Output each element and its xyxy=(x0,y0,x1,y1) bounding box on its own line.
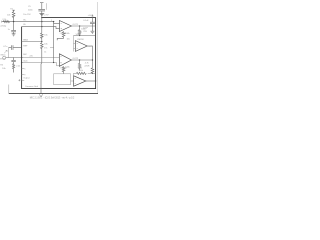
IC box outline U1 xyxy=(22,18,96,89)
node: input terminal xyxy=(0,21,2,23)
node junction output2 xyxy=(79,59,80,60)
wire: +9V arrow lead xyxy=(46,3,48,10)
resistor R10 horizontal y73 xyxy=(77,72,87,74)
node junction x53.6 y62.5 xyxy=(53,62,54,63)
node junction y62.5 xyxy=(21,62,22,63)
ground below C5 xyxy=(39,13,44,15)
op-amp U1D input marks xyxy=(75,78,76,83)
node junction xyxy=(41,21,42,22)
wire: U1B output xyxy=(71,59,92,61)
ground below C3 xyxy=(91,31,95,33)
wire: U1C output xyxy=(87,46,92,68)
wire: input signal y21.6 xyxy=(2,21,54,23)
svg-text:10k: 10k xyxy=(7,14,11,16)
op-amp U1C input marks xyxy=(77,43,78,48)
wire below C5 xyxy=(41,11,43,33)
battery plus mark xyxy=(18,79,20,81)
svg-text:C5: C5 xyxy=(28,6,32,8)
svg-text:2.7V: 2.7V xyxy=(44,15,49,17)
svg-text:1k: 1k xyxy=(44,51,46,53)
pin stub y68.6 xyxy=(22,68,25,70)
op-amp U1C xyxy=(75,41,87,52)
resistor R2 horizontal input xyxy=(3,21,9,23)
svg-text:Common Gnd: Common Gnd xyxy=(25,86,39,88)
node junction xyxy=(53,21,54,22)
op-amp U1B xyxy=(59,54,71,67)
pin stub y74.6 xyxy=(22,74,25,76)
wire: U1D vertical x73.6 xyxy=(73,73,75,78)
wire: mid-left vertical x73.5 xyxy=(73,36,75,52)
wire: second input y26.6 xyxy=(22,27,60,29)
svg-text:1%: 1% xyxy=(44,47,47,49)
capacitor C3 right column xyxy=(90,18,95,31)
svg-text:BIAS: BIAS xyxy=(23,39,28,42)
svg-text:100k: 100k xyxy=(79,70,84,72)
svg-text:100k: 100k xyxy=(65,33,70,35)
node junction x92.5 y73 xyxy=(92,73,93,74)
svg-text:IN-: IN- xyxy=(23,24,26,26)
svg-text:0.1uF: 0.1uF xyxy=(83,20,89,22)
svg-text:OUT2: OUT2 xyxy=(73,58,79,60)
resistor R11 vertical x92.5 xyxy=(91,68,94,74)
svg-text:IN+: IN+ xyxy=(23,19,27,21)
wire: supply vertical x41.8 xyxy=(41,3,43,10)
svg-text:REF: REF xyxy=(23,45,28,47)
resistor R8 vertical x63.6 under U1B xyxy=(62,66,65,74)
svg-text:R5: R5 xyxy=(0,65,4,67)
svg-text:10k: 10k xyxy=(44,43,48,45)
ground for C1 xyxy=(12,34,16,36)
svg-text:100n: 100n xyxy=(28,9,33,11)
wire: bottom-left frame vertical xyxy=(8,85,10,94)
node junction x41.8 y17.6 xyxy=(41,17,42,18)
svg-text:4.7k: 4.7k xyxy=(85,62,90,64)
svg-text:LM358: LM358 xyxy=(77,39,84,41)
svg-text:220R: 220R xyxy=(84,66,89,68)
wire: U1A output xyxy=(71,25,95,27)
node junction bias tap xyxy=(41,41,42,42)
svg-text:5: 5 xyxy=(24,69,25,71)
svg-text:+5V: +5V xyxy=(88,15,92,17)
wire: inverting path y62.5 xyxy=(22,63,60,66)
wire: U1D output xyxy=(86,80,96,82)
op-amp U1D xyxy=(74,76,86,86)
svg-text:Output: Output xyxy=(23,76,30,79)
wire: stub y47.6 left xyxy=(50,47,54,49)
resistor R1 vertical xyxy=(12,10,15,21)
svg-text:OUT1: OUT1 xyxy=(73,24,79,26)
node junction xyxy=(41,26,42,27)
svg-text:Gain: Gain xyxy=(23,60,28,62)
op-amp U1A xyxy=(59,21,71,32)
node junction mic wire xyxy=(21,57,22,58)
op-amp U1B input marks xyxy=(60,56,61,63)
node junction output1 xyxy=(79,25,80,26)
svg-text:9: 9 xyxy=(24,75,25,77)
wire: feedback drop x79.6 xyxy=(79,26,81,30)
svg-text:2.2k: 2.2k xyxy=(16,65,21,67)
svg-text:MIC: MIC xyxy=(23,54,27,56)
resistor R5 vertical x13.6 xyxy=(11,58,15,73)
svg-text:1u: 1u xyxy=(8,29,10,31)
svg-text:MIC 2.1 B.O. - (C) D.Self 2013: MIC 2.1 B.O. - (C) D.Self 2013 - rev A -… xyxy=(30,97,75,100)
svg-text:2200p: 2200p xyxy=(0,25,7,27)
resistor R7 vertical x63.6 under U1A xyxy=(62,31,65,38)
wire: mid bus y35.5 xyxy=(74,35,96,37)
svg-text:10k: 10k xyxy=(67,38,70,40)
microphone MIC1 xyxy=(3,56,6,59)
svg-text:10u 25V: 10u 25V xyxy=(23,14,31,16)
svg-text:10k: 10k xyxy=(44,35,48,37)
svg-text:VREF: VREF xyxy=(76,34,82,36)
svg-text:22k: 22k xyxy=(30,55,33,57)
resistor R3 vertical x41.8 upper xyxy=(41,33,44,43)
node junction R6 on bus xyxy=(79,35,80,36)
resistor R9 vertical x79.6 xyxy=(78,60,81,70)
svg-text:OUT: OUT xyxy=(88,46,93,48)
svg-text:3: 3 xyxy=(51,20,52,22)
capacitor C1 below input wire xyxy=(11,22,16,34)
wire: feedback top y73 xyxy=(74,72,96,74)
wire: op-amp1 plus input xyxy=(54,22,60,24)
svg-text:10k: 10k xyxy=(2,68,6,70)
node junction U1D out xyxy=(95,80,96,81)
capacitor C5 plates xyxy=(38,9,45,11)
svg-text:100k: 100k xyxy=(65,66,70,68)
svg-text:MIC1: MIC1 xyxy=(1,55,7,57)
speaker box LS1 xyxy=(54,74,71,85)
svg-text:25V: 25V xyxy=(83,31,87,33)
node junction xyxy=(13,21,14,22)
node junction x92.5 y60 xyxy=(92,59,93,60)
op-amp U1A input marks xyxy=(61,23,62,29)
wire: mic signal into box y57.5 xyxy=(22,57,60,59)
wire: mic output y57.6 xyxy=(6,57,22,59)
resistor R6 vertical x79.6 xyxy=(78,30,81,36)
resistor R4 vertical x41.8 lower xyxy=(41,43,44,94)
svg-text:2.2k: 2.2k xyxy=(2,19,7,21)
wire: box to U1D xyxy=(71,80,74,82)
wire: mic vertical xyxy=(8,48,10,58)
svg-text:ECM: ECM xyxy=(0,58,5,60)
wire: bottom ground bus xyxy=(9,93,98,95)
wire: U1C inputs xyxy=(74,43,76,48)
ground arrow below bus xyxy=(39,94,42,97)
wire: cap C2 feed y47.6 xyxy=(9,47,22,49)
power bar +9V xyxy=(40,2,44,4)
wire: under U1A to corner xyxy=(57,38,63,40)
svg-text:4.7u: 4.7u xyxy=(3,46,8,48)
wire: outer right border xyxy=(97,2,99,94)
+5V stub right column xyxy=(92,15,94,18)
svg-text:10uF: 10uF xyxy=(83,27,88,29)
wire: vertical feedback x53.6 xyxy=(53,23,55,62)
wire: bias y41.5 xyxy=(22,41,42,43)
mic arrow xyxy=(4,50,7,53)
capacitor C2 plates xyxy=(12,45,13,50)
pin stub y80.6 xyxy=(22,80,25,82)
